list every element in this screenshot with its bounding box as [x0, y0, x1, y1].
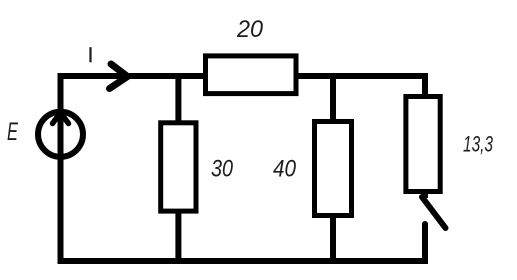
svg-text:E: E [7, 118, 18, 146]
svg-text:40: 40 [273, 155, 297, 182]
svg-text:30: 30 [211, 155, 234, 182]
svg-text:20: 20 [236, 16, 264, 43]
svg-text:13,3: 13,3 [463, 132, 494, 157]
